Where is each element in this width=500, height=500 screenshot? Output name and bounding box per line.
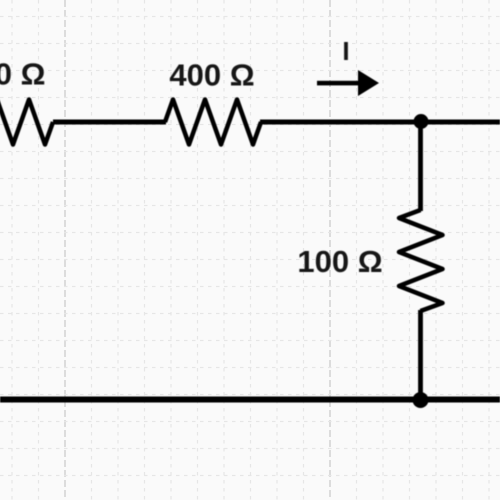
svg-text:100 Ω: 100 Ω [297, 244, 382, 279]
wire bottom rail [0, 397, 500, 403]
node junction bottom [413, 392, 429, 408]
wire vertical upper segment [418, 122, 423, 211]
resistor R2 400 ohm [165, 100, 261, 145]
wire top-right segment [260, 120, 500, 125]
resistor R1 (partially off-screen left, 400 ohm) [0, 100, 53, 145]
svg-text:400 Ω: 400 Ω [0, 57, 46, 92]
svg-text:I: I [342, 36, 349, 66]
wire vertical lower segment [418, 310, 423, 400]
svg-text:400 Ω: 400 Ω [169, 58, 254, 93]
wire top-left segment [53, 120, 166, 125]
resistor R3 100 ohm (vertical) [399, 210, 443, 311]
node junction top [414, 114, 429, 129]
current arrow I [317, 70, 379, 96]
